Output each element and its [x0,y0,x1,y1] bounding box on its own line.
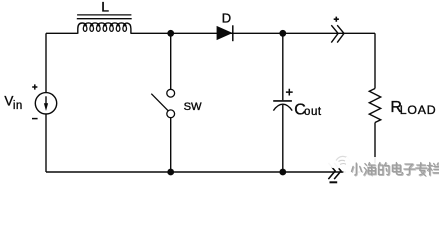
svg-text:out: out [304,106,322,118]
wire switch branch upper [170,33,172,89]
capacitor Cout curved plate [273,104,292,110]
svg-text:D: D [222,10,231,25]
wire top rail left segment [46,32,78,34]
inductor L core bars [77,15,132,19]
inductor L coil scallops [78,23,131,34]
switch SW blade [151,94,168,111]
svg-text:L: L [101,0,109,14]
output arrow chevrons bottom [328,163,341,179]
diode D triangle [217,27,231,40]
wire capacitor branch lower [282,105,284,172]
svg-text:in: in [13,100,23,112]
output arrow chevrons top [331,25,344,42]
switch SW contacts [167,89,175,117]
wire switch branch lower [170,118,172,172]
svg-text:SW: SW [184,101,202,113]
watermark text shadow pass [352,164,439,177]
resistor RLOAD zigzag [369,89,380,123]
watermark text halo pass [352,163,439,176]
watermark logo blob [327,156,355,176]
voltage source V1 arrow [44,96,48,111]
node junction dot (switch top) [167,30,174,37]
label + (source) [32,84,37,89]
label - (output bottom) [330,181,338,183]
node junction dot (switch bottom) [167,169,174,176]
watermark text gray pass [352,163,439,176]
wire left branch upper [45,33,47,92]
node junction dot (cap top) [279,30,286,37]
wire top rail right segment [131,32,375,34]
capacitor Cout top plate [273,100,292,102]
node junction dot (cap bottom) [279,169,286,176]
wire right branch upper [374,33,376,88]
label + (cap) [286,89,293,96]
svg-text:LOAD: LOAD [400,103,437,117]
label + (output top) [334,17,339,22]
inductor L loop circles [83,26,126,32]
label - (source) [32,118,38,120]
wire right branch lower [374,123,376,173]
wire left branch lower [45,114,47,172]
voltage source V1 circle [35,93,56,114]
wire bottom rail [46,171,375,173]
wire capacitor branch upper [282,33,284,100]
watermark white band under text [346,157,439,178]
diode D cathode bar [232,25,234,41]
output arrow chevrons bottom (tips redrawn over blob) [328,168,343,179]
